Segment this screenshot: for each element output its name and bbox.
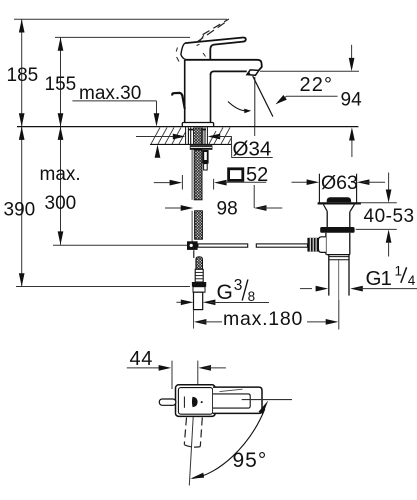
shank flange line under base	[188, 129, 206, 131]
top view inner wall	[178, 388, 212, 415]
44 right arrow and leader	[198, 365, 211, 371]
extension line 390 bottom	[16, 286, 190, 288]
pop-up pull rod at body rear	[172, 93, 185, 109]
svg-text:185: 185	[7, 65, 39, 86]
svg-text:max.: max.	[40, 164, 81, 185]
swivel centerline reference	[242, 399, 292, 401]
knurled adjustment knob	[307, 238, 318, 252]
svg-text:Ø34: Ø34	[233, 138, 272, 161]
label square 52	[229, 169, 243, 181]
svg-text:G: G	[217, 281, 233, 304]
drain axis extension line	[338, 299, 340, 329]
G3/8 right arrow and leader	[203, 299, 216, 305]
dimension 390 bottom arrow	[19, 273, 25, 286]
extension line top (185 height)	[14, 18, 227, 20]
supply shank rod lower segment	[195, 211, 203, 239]
dimension 185 vertical line	[21, 19, 23, 126]
aerator mousseur at spout tip	[247, 70, 259, 75]
dimension 155 vertical line	[60, 37, 62, 126]
lever outer outline (top view)	[213, 387, 262, 413]
52 right extension line	[213, 179, 215, 190]
pop-up rod guide block	[203, 150, 209, 164]
98 right arrow and leader	[254, 205, 267, 211]
dimension 52 square: left extension line	[181, 175, 183, 190]
40-53 top stem and down arrow	[388, 173, 390, 192]
raised lever dashed line upper	[203, 19, 229, 35]
22 deg leader arrowhead	[275, 95, 286, 104]
G1 1/4 right arrow and leader	[350, 286, 363, 292]
lever handle	[185, 38, 246, 60]
svg-text:94: 94	[341, 90, 363, 111]
dia63 extension line left / cylinder left	[318, 174, 320, 203]
44 right extension line	[197, 361, 199, 386]
swung lever dashed bottom cap	[184, 445, 200, 447]
svg-text:1: 1	[395, 263, 403, 278]
dimension hole dia 34: left leader	[136, 136, 180, 138]
dimension 390 top arrow	[19, 127, 25, 140]
spout underside	[211, 71, 247, 75]
drain centerline	[338, 260, 340, 299]
extension of pipe edge down	[193, 310, 195, 329]
mounting washer below deck	[190, 145, 213, 150]
max.30 up arrow below deck bottom	[155, 145, 161, 158]
spout axis extension line below deck	[254, 127, 256, 136]
max.180 right leader and arrow	[307, 321, 333, 323]
svg-text:G1: G1	[366, 267, 392, 290]
drain seal flange	[320, 227, 354, 233]
40-53 bottom up arrow and stem	[386, 229, 392, 242]
faucet deck hole right edge	[206, 127, 208, 144]
dimension 94 top stem	[351, 45, 353, 60]
max.30 leader underline	[72, 100, 156, 102]
drain tailpipe	[328, 255, 330, 296]
hole dia 34 right leader with elbow	[218, 137, 273, 158]
water stream vertical reference line	[254, 77, 256, 126]
drain neck taper	[323, 205, 354, 212]
dimension 185 bottom arrow	[19, 113, 25, 126]
G1 1/4 left arrow at pipe	[300, 288, 312, 290]
dimension max.300 bottom arrow	[58, 231, 64, 244]
svg-text:3: 3	[234, 277, 243, 294]
40-53 extension line bottom	[356, 228, 397, 230]
svg-text:390: 390	[4, 200, 36, 221]
threaded shank rod hatched (deck to 98 gap)	[193, 128, 201, 144]
flexible hose braided section	[196, 257, 203, 270]
faucet deck hole left edge	[185, 127, 187, 144]
drain plug cap	[327, 197, 352, 202]
dimension 98: left leader and arrow	[165, 207, 188, 209]
supply connection nut	[192, 282, 206, 287]
lever hidden dashes inside base	[176, 44, 205, 61]
svg-text:44: 44	[130, 348, 153, 370]
deck hatching right of hole	[209, 128, 232, 145]
hole dia 34 right arrow	[208, 134, 221, 140]
22 deg arc arrow	[228, 102, 247, 111]
drain body upper	[326, 212, 328, 227]
dimension 155 bottom arrow	[58, 113, 64, 126]
drain seat lip line	[318, 202, 361, 204]
svg-text:155: 155	[45, 74, 77, 95]
pop-up rod guide tail	[204, 164, 208, 170]
supply pipe G3/8	[194, 292, 203, 309]
top view body square	[176, 385, 216, 417]
lever inner contour	[213, 394, 250, 408]
extension line spout outlet (94)	[260, 70, 359, 72]
95 deg arc	[193, 409, 265, 478]
svg-text:52: 52	[246, 164, 268, 186]
svg-text:98: 98	[217, 199, 238, 220]
water stream 22 deg slant line	[253, 76, 273, 117]
countertop deck top line	[17, 126, 358, 128]
ball rod housing bulge	[318, 237, 326, 253]
inner left tick	[183, 397, 185, 408]
svg-text:4: 4	[408, 273, 416, 288]
hose fitting	[195, 269, 203, 282]
dimension max.180 left arrow	[194, 319, 207, 325]
lever top chamfer line	[220, 389, 243, 391]
22 deg leader line	[278, 96, 338, 102]
swung lever dashed outline right	[200, 418, 202, 447]
pop-up rod nub (top view)	[159, 399, 176, 405]
thin rod edge line left	[191, 150, 193, 200]
tailpipe collar lines	[329, 256, 349, 258]
G3/8 left leader and arrow	[177, 301, 189, 303]
dia63 left leader and arrow	[292, 181, 315, 183]
dimension max.300 vertical line	[60, 127, 62, 245]
svg-text:22°: 22°	[300, 74, 334, 96]
svg-text:300: 300	[45, 193, 77, 214]
supply shank rod upper segment	[194, 150, 202, 200]
pop-up rod connector block	[187, 241, 198, 250]
countertop deck bottom line	[150, 143, 232, 145]
95 deg arc top arrowhead	[259, 401, 269, 415]
dimension 185 top arrow	[19, 19, 25, 32]
aerator dark wedge	[246, 71, 251, 76]
svg-text:Ø63: Ø63	[321, 172, 358, 194]
lever base left face	[181, 43, 186, 60]
faucet spout top and nose	[185, 60, 262, 70]
faucet shank sleeve lines in hole	[188, 127, 205, 144]
max.30 leader vertical	[156, 101, 158, 117]
dimension 40-53 extension line top	[357, 202, 397, 204]
swung lever dashed outline left	[184, 418, 186, 445]
cartridge mark	[192, 397, 198, 408]
svg-text:8: 8	[248, 289, 256, 304]
svg-text:95°: 95°	[233, 449, 268, 472]
hole dia 34 left arrow	[173, 134, 186, 140]
drain body lower	[325, 233, 327, 255]
dimension max.300 top arrow	[58, 127, 64, 140]
52 left leader and arrow	[154, 182, 177, 184]
horizontal pop-up rod right segment	[256, 244, 307, 247]
dia63 right arrow and leader	[357, 179, 370, 185]
44 dimension line and right-pointing arrow	[127, 367, 166, 369]
dia63 extension line right / cylinder right	[356, 174, 358, 203]
52 right arrow and leader	[214, 180, 227, 186]
swung lever leg line	[189, 417, 193, 486]
dimension 390 vertical line	[21, 127, 23, 287]
extension line (155 height)	[55, 36, 190, 38]
44 left extension line	[171, 361, 173, 389]
max.30 down arrow at deck top	[154, 113, 160, 126]
svg-text:max.180: max.180	[223, 308, 303, 330]
raised lever dashed line lower	[196, 21, 227, 43]
dimension 94 down arrow	[349, 58, 355, 71]
dimension 155 top arrow	[58, 37, 64, 50]
dimension 94 up arrow at deck	[349, 127, 355, 140]
faucet body column	[184, 60, 186, 123]
deck hatching left of hole	[151, 128, 186, 145]
raised lever cross tick	[200, 35, 204, 41]
dimension 94 bottom stem	[351, 141, 353, 158]
flexible hose top link	[193, 250, 195, 258]
horizontal pop-up rod left segment	[198, 244, 248, 247]
95 deg arc bottom arrowhead	[190, 473, 204, 479]
extension line max.300 bottom	[53, 244, 190, 246]
faucet base plate	[182, 123, 213, 127]
svg-text:40-53: 40-53	[364, 206, 415, 227]
